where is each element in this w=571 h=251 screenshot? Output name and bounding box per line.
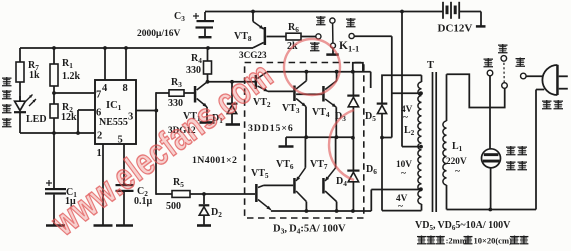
dashed module box bbox=[245, 63, 364, 219]
svg-text:T: T bbox=[427, 60, 434, 71]
svg-text:0.1μ: 0.1μ bbox=[134, 196, 153, 207]
wire bank-B to tap3 bbox=[370, 190, 372, 212]
wire battery plus feed bbox=[401, 12, 403, 147]
diode D4 bbox=[352, 107, 354, 170]
svg-text:2000μ/16V: 2000μ/16V bbox=[137, 29, 181, 39]
inductor L2 winding bbox=[418, 82, 422, 204]
wire D5 anode link bbox=[382, 137, 392, 139]
svg-text:1: 1 bbox=[97, 148, 102, 159]
wire pin3 bbox=[136, 110, 156, 112]
label heatsink note bbox=[417, 236, 426, 238]
wire pin4 bbox=[104, 48, 106, 80]
transistor Q4 VT4 bbox=[322, 86, 325, 102]
transistor Q5 VT5 bbox=[255, 184, 258, 202]
svg-text:VD5, VD65~10A/ 100V: VD5, VD65~10A/ 100V bbox=[415, 220, 511, 232]
plug AC input bbox=[556, 65, 559, 95]
wire tap1 bbox=[392, 92, 421, 94]
diode D3 bbox=[352, 72, 354, 95]
svg-text:1k: 1k bbox=[29, 70, 40, 81]
socket output bbox=[482, 149, 501, 168]
svg-text:8: 8 bbox=[123, 83, 128, 94]
diode D1 bbox=[231, 82, 233, 103]
label input bbox=[542, 100, 552, 102]
diode D2 bbox=[203, 194, 205, 204]
svg-text:330: 330 bbox=[186, 65, 201, 76]
svg-text:~: ~ bbox=[455, 167, 460, 177]
wire socket feed bbox=[489, 76, 491, 149]
svg-text:LED: LED bbox=[26, 114, 47, 125]
resistor R7 bbox=[19, 48, 21, 62]
svg-text:DC12V: DC12V bbox=[438, 23, 473, 35]
wire output bottom bbox=[447, 209, 537, 211]
svg-text:12k: 12k bbox=[61, 112, 77, 123]
resistor R3 bbox=[156, 92, 169, 94]
svg-text:~: ~ bbox=[401, 169, 406, 179]
wire NE555 pin2 row bbox=[20, 132, 95, 134]
resistor R6 bbox=[267, 36, 287, 38]
transistor Q6 VT6 bbox=[293, 178, 296, 194]
capacitor C1 bbox=[53, 133, 55, 188]
transistor Q7 VT7 bbox=[322, 178, 325, 194]
svg-text:6: 6 bbox=[96, 108, 101, 119]
switch K1-2 bbox=[502, 83, 508, 89]
diode D5 bbox=[382, 75, 422, 102]
svg-text:5: 5 bbox=[118, 135, 123, 146]
inductor L1 winding bbox=[446, 74, 448, 121]
transistor Q3 VT3 bbox=[293, 86, 296, 102]
resistor R1 bbox=[53, 48, 55, 64]
wire plug down lead bbox=[535, 90, 537, 210]
LED indicator bbox=[15, 101, 26, 110]
wire +12V top rail bbox=[205, 11, 443, 13]
wire bank-B output bbox=[271, 210, 371, 212]
wire pin8 bbox=[125, 48, 127, 80]
wire center tap bbox=[402, 146, 421, 148]
wire common emitter line bbox=[286, 136, 353, 138]
resistor R5 bbox=[156, 193, 172, 195]
svg-text:~: ~ bbox=[398, 202, 403, 212]
wire +V rail (NE555 section) bbox=[20, 47, 253, 49]
wire VT1 collector node bbox=[207, 81, 255, 83]
wire charge contact bbox=[349, 33, 354, 38]
label guan2 chong2 ni2 bbox=[498, 44, 508, 46]
transformer T winding L2 bbox=[421, 75, 423, 82]
svg-text:D3, D4:5A/ 100V: D3, D4:5A/ 100V bbox=[273, 224, 346, 236]
capacitor C3 bbox=[204, 12, 206, 20]
svg-text:3DD15×6: 3DD15×6 bbox=[248, 123, 294, 134]
wire bank-A collectors bbox=[267, 71, 371, 73]
svg-text:1.2k: 1.2k bbox=[62, 71, 81, 82]
wire charge to plug bbox=[526, 75, 544, 77]
vertical label nibian-zhishi bbox=[2, 77, 12, 79]
svg-text:4: 4 bbox=[102, 83, 108, 94]
svg-text:220V: 220V bbox=[446, 157, 467, 167]
svg-text:7: 7 bbox=[96, 90, 101, 101]
label inverter output bbox=[506, 146, 516, 148]
transformer core bbox=[432, 72, 434, 212]
switch K1-1 bbox=[316, 34, 321, 39]
svg-text:10×20(cm): 10×20(cm) bbox=[474, 236, 513, 246]
svg-text:1N4001×2: 1N4001×2 bbox=[192, 155, 237, 166]
resistor R4 bbox=[207, 48, 209, 61]
svg-text:330: 330 bbox=[168, 98, 183, 109]
watermark bbox=[44, 39, 354, 245]
wire L1 top to switch bbox=[447, 74, 505, 107]
svg-text:NE555: NE555 bbox=[99, 117, 128, 128]
IC U1 NE555 timer box bbox=[95, 80, 136, 144]
svg-text:3: 3 bbox=[128, 112, 133, 123]
label guan K1-1 bbox=[316, 16, 326, 18]
capacitor C2 bbox=[123, 144, 125, 184]
wire pin6 bbox=[78, 109, 95, 111]
svg-text:2: 2 bbox=[97, 131, 102, 142]
svg-text:~: ~ bbox=[403, 113, 408, 123]
transistor Q8 VT8 bbox=[264, 27, 267, 45]
wire pin7 bbox=[54, 92, 95, 94]
transistor Q2 VT2 bbox=[255, 75, 258, 89]
battery DC12V bbox=[442, 2, 444, 19]
svg-text:500: 500 bbox=[166, 201, 181, 212]
wire pin1 to ground bbox=[102, 144, 104, 225]
wire pin3 output bus bbox=[155, 92, 157, 195]
resistor R2 bbox=[50, 104, 58, 118]
transistor Q1 VT1 bbox=[194, 86, 197, 103]
